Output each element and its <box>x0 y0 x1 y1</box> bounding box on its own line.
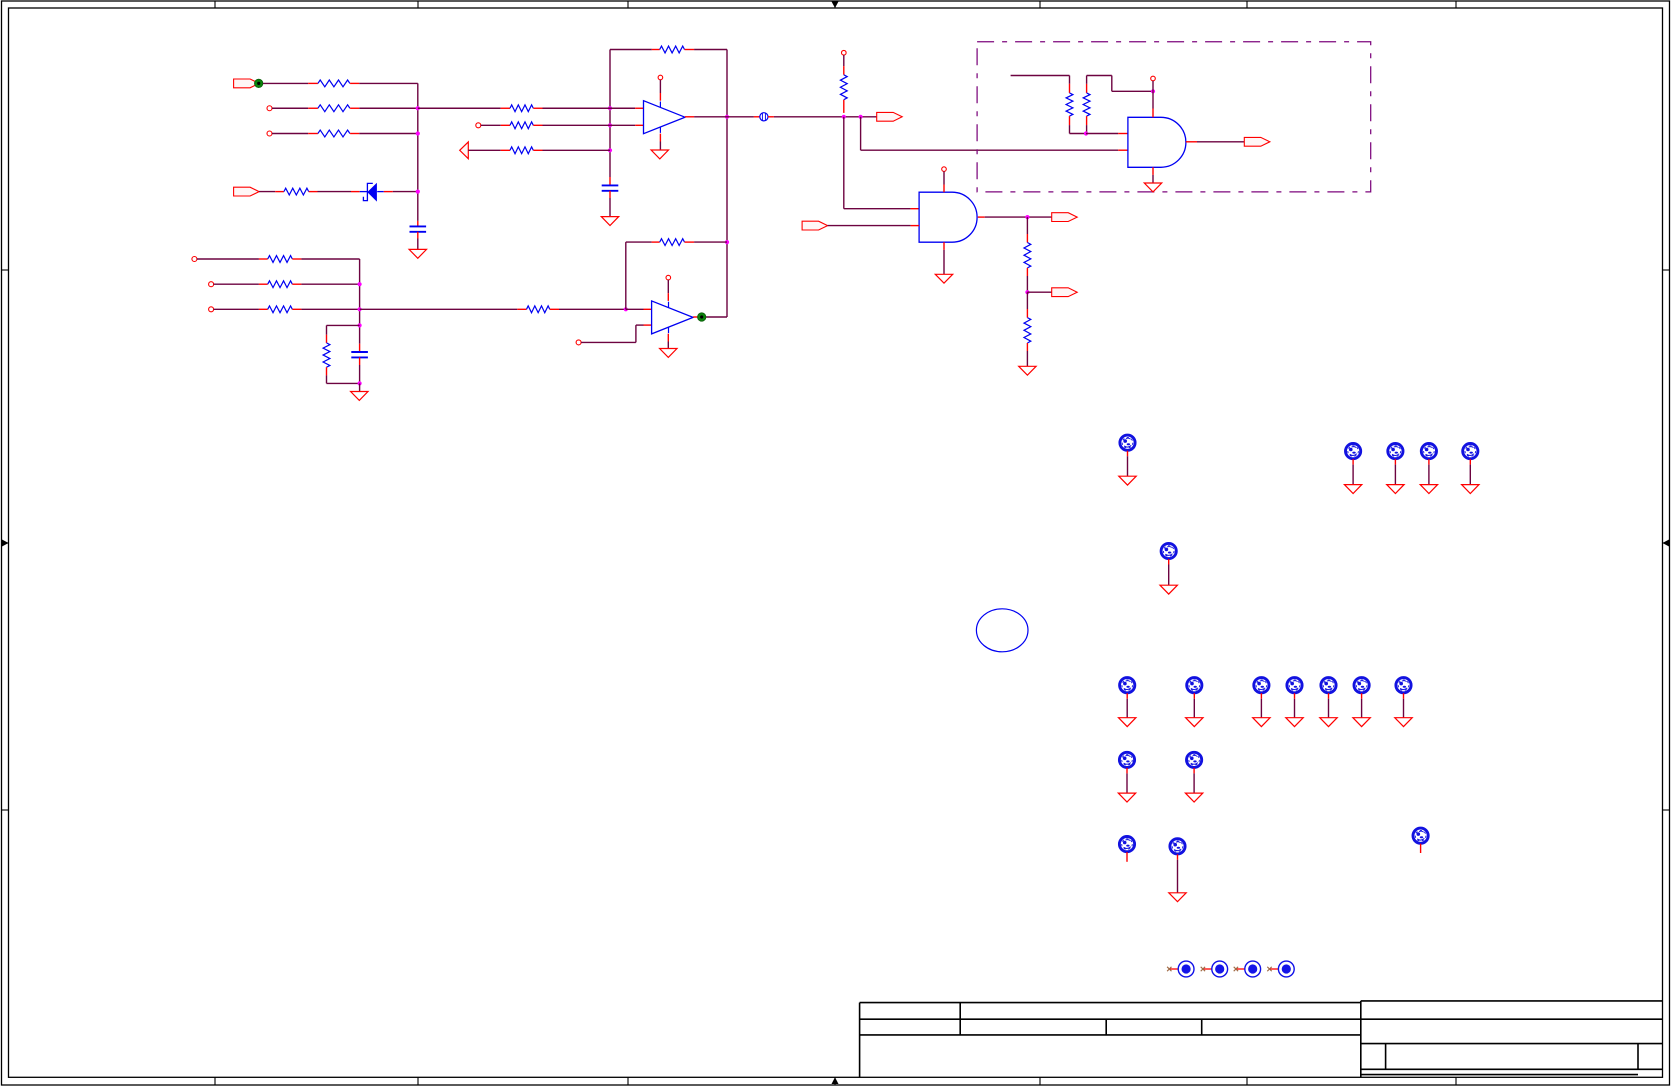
input pin IN2 <box>267 131 272 136</box>
resistor R4 <box>275 191 284 193</box>
wire row to R8 <box>360 308 518 310</box>
test point TP4 <box>1267 961 1294 977</box>
wire <box>359 107 418 109</box>
input pin IN4 <box>192 257 197 262</box>
zener diode D1 <box>351 191 360 193</box>
wire <box>318 191 352 193</box>
port OUT4 <box>1244 137 1270 146</box>
resistor R1 <box>308 82 318 84</box>
wire <box>581 341 636 343</box>
mounting hole MH10 <box>1287 678 1302 693</box>
wire U3 output <box>978 216 985 218</box>
mounting hole MH2 <box>1346 444 1361 459</box>
resistor R10 <box>652 241 660 243</box>
ground U1 <box>659 134 661 142</box>
ground <box>351 392 368 401</box>
resistor R13 <box>1026 292 1028 309</box>
mounting hole MH17 <box>1170 839 1185 854</box>
resistor R18 <box>214 283 259 285</box>
and-gate U4 <box>1128 117 1186 167</box>
ground U4 <box>1152 167 1154 175</box>
ground <box>601 217 618 226</box>
wire <box>301 308 359 310</box>
resistor R6 <box>481 124 501 126</box>
node N1 (green) <box>255 79 263 87</box>
mounting hole MH1 <box>1120 435 1135 450</box>
mounting hole MH9 <box>1254 678 1269 693</box>
wire <box>272 107 308 109</box>
power pin U2 V+ <box>666 275 671 280</box>
ground <box>1019 366 1036 375</box>
option box <box>977 42 1371 192</box>
resistor R5 <box>418 107 501 109</box>
mounting hole MH18 <box>1413 828 1428 843</box>
port P5 <box>802 221 828 230</box>
wire long to gate2 in2 <box>860 117 862 150</box>
mounting hole MH12 <box>1354 678 1369 693</box>
wire <box>543 149 611 151</box>
op-amp U1 <box>644 101 686 134</box>
wire <box>393 191 418 193</box>
wire left fb vertical <box>609 50 611 178</box>
resistor R14 <box>1069 84 1071 93</box>
port OUT3 <box>1027 291 1051 293</box>
input pin IN1 <box>267 106 272 111</box>
port OUT2 <box>1052 213 1078 222</box>
input pin IN5 <box>209 282 214 287</box>
resistor R3 <box>308 133 318 135</box>
resistor R11 pullup <box>843 55 845 66</box>
wire U2 output <box>693 316 702 318</box>
wire feedback top <box>610 49 652 51</box>
wire <box>359 383 361 391</box>
power pin U3 <box>942 167 947 172</box>
mounting hole MH8 <box>1187 678 1202 693</box>
wire <box>609 198 611 217</box>
port P1 <box>234 79 260 88</box>
capacitor C2 <box>609 177 611 185</box>
mounting hole MH5 <box>1463 444 1478 459</box>
resistor R9 <box>652 49 660 51</box>
wire <box>359 82 418 84</box>
wire vertical right bus <box>726 50 728 318</box>
node B bus <box>359 259 361 344</box>
wire <box>543 124 611 126</box>
mounting hole MH14 <box>1119 752 1134 767</box>
resistor R8 <box>517 308 526 310</box>
resistor R19 <box>214 308 259 310</box>
resistor R12 <box>1026 217 1028 234</box>
wire <box>259 191 275 193</box>
power pin U1 V+ <box>658 75 663 80</box>
wire box top <box>1011 75 1070 77</box>
wire <box>559 308 626 310</box>
ground U2 <box>667 334 669 342</box>
power pin P4 <box>842 50 847 55</box>
ground <box>409 249 426 258</box>
wire <box>301 283 359 285</box>
test point TP1 <box>1167 961 1194 977</box>
resistor R17 <box>197 258 259 260</box>
test point TP2 <box>1201 961 1228 977</box>
test point TP3 <box>1234 961 1261 977</box>
mounting hole MH15 <box>1187 752 1202 767</box>
wire <box>543 107 611 109</box>
node A bus <box>417 83 419 221</box>
wire <box>694 241 727 243</box>
mounting hole MH3 <box>1388 444 1403 459</box>
node N2 (green) <box>698 313 706 321</box>
wire to gate1 in1 <box>843 117 845 209</box>
capacitor C3 <box>359 344 361 352</box>
port OUT1 <box>877 112 903 121</box>
mounting hole MH6 <box>1161 543 1176 558</box>
ellipse marker <box>976 609 1028 652</box>
op-amp U2 <box>652 301 694 334</box>
resistor R2 <box>308 107 318 109</box>
power pin U4 <box>1151 76 1156 81</box>
net tie NT1 <box>754 116 760 118</box>
wire <box>263 82 308 84</box>
wire feedback 2 <box>625 242 627 309</box>
wire <box>774 116 877 118</box>
mounting hole MH7 <box>1120 678 1135 693</box>
input pin IN7 <box>576 340 581 345</box>
wire <box>301 258 359 260</box>
resistor R16 <box>327 324 360 326</box>
resistor R15 <box>1086 84 1088 93</box>
mounting hole MH11 <box>1321 678 1336 693</box>
wire <box>417 239 419 250</box>
ground U3 <box>943 242 945 250</box>
mounting hole MH4 <box>1421 444 1436 459</box>
input pin IN3 <box>476 123 481 128</box>
wire <box>359 133 418 135</box>
port P3 arrow <box>460 142 469 159</box>
resistor R7 <box>468 149 500 151</box>
and-gate U3 <box>919 192 977 242</box>
wire <box>694 49 727 51</box>
wire <box>828 225 911 227</box>
wire U4 output <box>1186 141 1197 143</box>
wire <box>1086 133 1118 135</box>
input pin IN6 <box>209 307 214 312</box>
capacitor C1 <box>417 221 419 227</box>
wire <box>272 133 308 135</box>
wire U1 output <box>685 116 694 118</box>
port P2 <box>234 187 260 196</box>
mounting hole MH16 <box>1119 837 1134 852</box>
mounting hole MH13 <box>1396 678 1411 693</box>
